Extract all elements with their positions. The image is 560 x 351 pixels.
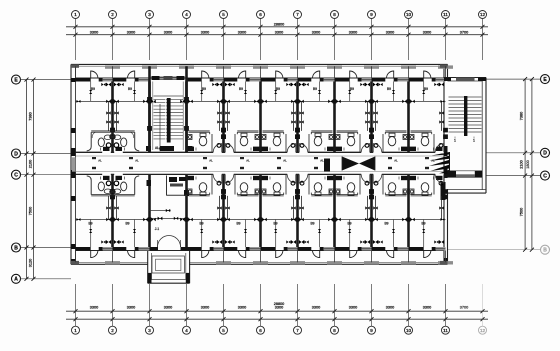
svg-text:3300: 3300	[275, 306, 283, 310]
right dimension vertical lines	[525, 79, 532, 250]
bottom bathroom bay 8	[336, 173, 374, 199]
svg-text:10: 10	[406, 12, 412, 17]
svg-text:1: 1	[454, 139, 456, 143]
svg-text:3300: 3300	[90, 306, 98, 310]
grid axis 9 bottom circle	[368, 284, 376, 334]
top room bay 10 wiring	[409, 82, 446, 131]
grid axis 7 bottom circle	[294, 284, 302, 334]
svg-text:B: B	[543, 248, 547, 254]
svg-text:AL: AL	[209, 159, 213, 163]
bottom dimension lines	[66, 311, 488, 319]
grid axis 3 bottom circle	[146, 284, 154, 334]
svg-text:AL: AL	[320, 159, 324, 163]
right stair block walls	[444, 78, 486, 194]
top room bay 7 wiring	[298, 82, 335, 131]
top room bay 6 wiring	[261, 82, 298, 131]
svg-text:AL: AL	[98, 159, 102, 163]
corridor double door	[342, 157, 375, 171]
svg-text:3300: 3300	[423, 306, 431, 310]
svg-text:10: 10	[406, 328, 412, 333]
svg-text:7380: 7380	[29, 112, 33, 120]
grid axis 2 top circle	[109, 11, 117, 61]
corridor top small marks	[92, 157, 429, 159]
corridor tiny labels	[98, 159, 435, 163]
bottom bathroom bay 1 boxes	[101, 173, 115, 199]
svg-text:1: 1	[473, 139, 475, 143]
grid axis 10 top circle	[405, 11, 413, 61]
svg-text:3300: 3300	[349, 30, 357, 34]
bathroom pair variant A bottom at grid 2	[87, 176, 140, 196]
svg-text:AL: AL	[135, 159, 139, 163]
svg-text:B9: B9	[88, 222, 92, 226]
grid axis 8 top circle	[331, 11, 339, 61]
interior partition walls top row	[113, 82, 409, 153]
bottom bathroom bay 6	[262, 173, 300, 199]
svg-text:B9: B9	[273, 222, 277, 226]
svg-text:B9: B9	[313, 87, 317, 91]
mid line wall crossing symbols top	[77, 100, 445, 103]
svg-text:J-1: J-1	[155, 227, 160, 231]
bottom parapet pier segments	[71, 261, 453, 265]
top balcony dividers	[76, 66, 446, 78]
entrance porch landing	[152, 256, 184, 273]
svg-text:3300: 3300	[275, 30, 283, 34]
svg-text:AL: AL	[431, 159, 435, 163]
interior partition walls bottom row	[113, 174, 409, 247]
svg-text:3300: 3300	[127, 30, 135, 34]
grid axis 11 top circle	[442, 11, 450, 61]
bottom bathroom bay 2 boxes	[110, 173, 124, 199]
svg-text:3300: 3300	[201, 30, 209, 34]
svg-text:B9: B9	[350, 87, 354, 91]
svg-text:AL: AL	[246, 159, 250, 163]
grid axis 5 top circle	[220, 11, 228, 61]
grid axis 1 top circle	[72, 11, 80, 61]
grid axis 12 bottom circle	[479, 284, 487, 334]
corridor AL box near double door	[324, 159, 330, 172]
grid axis 4 top circle	[183, 11, 191, 61]
bottom bathroom bay 9	[369, 173, 407, 199]
svg-text:1800: 1800	[526, 160, 530, 168]
svg-text:3300: 3300	[90, 30, 98, 34]
svg-text:B9: B9	[347, 222, 351, 226]
stair landing entry marks	[155, 146, 174, 151]
grid axis 7 top circle	[294, 11, 302, 61]
grid axis 4 bottom circle	[183, 284, 191, 334]
svg-text:A: A	[14, 277, 18, 283]
lobby entrance door arc	[158, 236, 181, 248]
bottom room wall band	[76, 247, 446, 251]
svg-text:B9: B9	[202, 87, 206, 91]
svg-text:7500: 7500	[29, 207, 33, 215]
corridor top wall	[76, 152, 445, 156]
svg-text:3300: 3300	[238, 30, 246, 34]
svg-text:D: D	[14, 151, 18, 157]
top room bay 9 wiring	[372, 82, 409, 131]
svg-text:B9: B9	[91, 87, 95, 91]
svg-text:B9: B9	[125, 222, 129, 226]
grid axis 6 top circle	[257, 11, 265, 61]
bottom dimension texts	[90, 302, 468, 310]
svg-text:B9: B9	[310, 222, 314, 226]
top room bay 4 wiring	[187, 82, 224, 131]
svg-text:3300: 3300	[349, 306, 357, 310]
top bathroom bay 10	[410, 128, 448, 154]
svg-text:2100: 2100	[29, 160, 33, 168]
right stair center rail	[464, 96, 467, 136]
bottom bathroom bay 7	[295, 173, 333, 199]
bottom bathroom bay 5	[221, 173, 259, 199]
svg-text:D: D	[543, 151, 547, 157]
left axis B circle	[12, 243, 72, 252]
grid axis 12 top circle	[479, 11, 487, 61]
svg-text:3300: 3300	[201, 306, 209, 310]
svg-text:28800: 28800	[274, 302, 285, 306]
svg-text:AL: AL	[155, 146, 159, 150]
corridor bottom wall	[76, 172, 445, 175]
top bathroom bay 9	[369, 128, 407, 154]
svg-text:3120: 3120	[29, 259, 33, 267]
svg-text:3300: 3300	[312, 30, 320, 34]
grid axis 1 bottom circle	[72, 284, 80, 334]
svg-text:7380: 7380	[520, 112, 524, 120]
top room bay 5 wiring	[224, 82, 261, 131]
top bathroom bay 4	[188, 128, 226, 154]
top room bay 2 wiring	[113, 82, 150, 131]
svg-text:B9: B9	[236, 222, 240, 226]
right axis B circle	[448, 245, 550, 254]
right stair block lower walls	[444, 171, 486, 193]
stair arrow	[159, 104, 162, 152]
left axis A circle	[12, 274, 72, 283]
svg-text:3300: 3300	[386, 30, 394, 34]
right axis D circle	[486, 148, 550, 157]
svg-text:3300: 3300	[127, 306, 135, 310]
top dimension lines	[66, 27, 488, 35]
stairwell top walls	[150, 66, 187, 152]
svg-text:AL: AL	[394, 159, 398, 163]
bottom bathroom bay 4	[188, 173, 226, 199]
bottom room bay 7 wiring	[298, 196, 335, 247]
right axis C circle	[486, 171, 550, 180]
bottom room bay 5 wiring	[224, 196, 261, 247]
top parapet pier segments	[71, 64, 453, 68]
right dimension texts	[520, 112, 531, 216]
left axis D circle	[12, 149, 72, 158]
bottom room bay 1 wiring	[76, 196, 113, 247]
svg-text:3300: 3300	[164, 30, 172, 34]
svg-text:28800: 28800	[274, 23, 285, 27]
svg-text:3700: 3700	[460, 306, 468, 310]
stair wall corridor blobs	[146, 146, 193, 196]
grid axis 2 bottom circle	[109, 284, 117, 334]
svg-text:B9: B9	[276, 87, 280, 91]
svg-text:2100: 2100	[520, 160, 524, 168]
grid axis 10 bottom circle	[405, 284, 413, 334]
top bathroom bay 1 boxes	[101, 128, 115, 154]
bottom room bay 10 wiring	[409, 196, 446, 247]
grid axis 6 bottom circle	[257, 284, 265, 334]
svg-text:B9: B9	[387, 87, 391, 91]
top parapet line	[71, 64, 448, 66]
top bathroom bay 7	[295, 128, 333, 154]
bottom room bay 8 wiring	[335, 196, 372, 247]
corridor right end door fan	[429, 152, 450, 176]
right axis E circle	[486, 75, 550, 84]
top room bay 1 wiring	[76, 82, 113, 131]
svg-text:C: C	[14, 173, 18, 179]
svg-text:3300: 3300	[238, 306, 246, 310]
svg-text:B9: B9	[128, 87, 132, 91]
left axis C circle	[12, 170, 72, 179]
bottom room bay 6 wiring	[261, 196, 298, 247]
outer wall left	[71, 64, 76, 264]
wall blocks at mid line top	[111, 99, 411, 103]
bottom room bay 4 wiring	[187, 196, 224, 247]
left dimension texts	[29, 112, 33, 267]
stair treads top stairwell	[154, 96, 184, 139]
top bathroom bay 5	[221, 128, 259, 154]
top room bay 8 wiring	[335, 82, 372, 131]
lobby interior bay 3	[150, 176, 188, 232]
svg-text:AL: AL	[283, 159, 287, 163]
left axis E circle	[12, 75, 72, 84]
svg-text:3300: 3300	[386, 306, 394, 310]
top dimension texts	[90, 23, 468, 35]
svg-text:B: B	[14, 245, 18, 251]
mid line wall crossing symbols bottom	[77, 218, 445, 221]
grid axis 8 bottom circle	[331, 284, 339, 334]
stair wall riser blocks	[147, 97, 189, 131]
svg-text:B9: B9	[424, 87, 428, 91]
corridor left wall gray pier	[72, 157, 76, 171]
bottom balcony dividers	[76, 251, 446, 263]
top bathroom bay 6	[262, 128, 300, 154]
svg-text:3300: 3300	[423, 30, 431, 34]
svg-text:B9: B9	[421, 222, 425, 226]
top bathroom bay 2 boxes	[110, 128, 124, 154]
grid axis 9 top circle	[368, 11, 376, 61]
svg-text:3300: 3300	[164, 306, 172, 310]
right stair labels	[454, 137, 475, 143]
bottom balcony door arcs	[91, 250, 431, 257]
stair treads right block	[449, 97, 482, 132]
grid axis 11 bottom circle	[442, 284, 450, 334]
svg-text:C: C	[543, 173, 547, 179]
entrance porch walls	[148, 251, 190, 283]
svg-text:B9: B9	[384, 222, 388, 226]
top room wall band	[76, 76, 446, 82]
svg-text:12: 12	[480, 328, 486, 333]
bathroom pair variant A top at grid 2	[87, 131, 140, 151]
stair center rail	[166, 98, 171, 143]
wall blocks at mid line bottom	[111, 217, 411, 221]
bottom bathroom bay 10	[410, 173, 448, 199]
top bathroom bay 8	[336, 128, 374, 154]
bottom room bay 9 wiring	[372, 196, 409, 247]
outer wall right main	[441, 64, 448, 264]
bottom room bay 2 wiring	[113, 196, 150, 247]
left dimension vertical lines	[27, 80, 34, 279]
top balcony door arcs	[91, 71, 431, 78]
bottom parapet line	[71, 262, 448, 264]
svg-text:B9: B9	[239, 87, 243, 91]
svg-text:11: 11	[443, 12, 448, 17]
svg-text:3300: 3300	[312, 306, 320, 310]
svg-text:12: 12	[480, 12, 486, 17]
corridor bottom small marks	[92, 167, 429, 169]
svg-text:7500: 7500	[520, 208, 524, 216]
svg-text:B9: B9	[199, 222, 203, 226]
grid axis 5 bottom circle	[220, 284, 228, 334]
svg-text:11: 11	[443, 328, 448, 333]
svg-text:3700: 3700	[460, 30, 468, 34]
grid axis 3 top circle	[146, 11, 154, 61]
